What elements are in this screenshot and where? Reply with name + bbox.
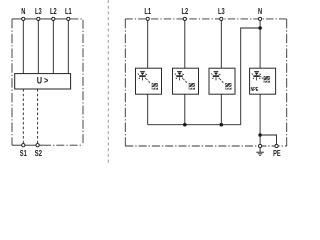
- left device enclosure bottom border solid part: [12, 144, 43, 146]
- junction N node: [258, 26, 262, 30]
- varistor arrester module L1: [136, 68, 162, 94]
- ground symbol: [256, 148, 264, 156]
- svg-text:L2: L2: [50, 7, 57, 16]
- wire L1 module to bus: [147, 94, 149, 125]
- terminal S2: [36, 144, 39, 147]
- wire L2 to arrester module: [184, 21, 186, 69]
- svg-text:U >: U >: [37, 74, 49, 85]
- svg-text:L3: L3: [35, 7, 42, 16]
- wire L2 module to bus: [184, 94, 186, 125]
- wire N to NPE spark gap: [259, 21, 261, 69]
- bus wire joining varistor outputs: [148, 124, 241, 126]
- svg-text:N: N: [258, 7, 262, 16]
- wire L1 to arrester module: [147, 21, 149, 69]
- junction bus L2: [183, 123, 187, 127]
- svg-text:N: N: [21, 7, 25, 16]
- svg-text:S1: S1: [20, 149, 27, 158]
- terminal L2 (left unit): [52, 17, 55, 20]
- svg-text:L3: L3: [218, 7, 225, 16]
- svg-text:L1: L1: [65, 7, 72, 16]
- NPE spark gap module: [250, 68, 276, 94]
- wire L3 to arrester module: [220, 21, 222, 69]
- svg-text:NPE: NPE: [251, 87, 259, 93]
- right device enclosure bottom border (dash-dot): [125, 145, 286, 147]
- wire NPE module to earth terminal: [259, 94, 261, 146]
- right device enclosure left border (dash-dot): [124, 19, 126, 146]
- terminal L1 (right unit): [146, 17, 149, 20]
- wire N branch to varistor bus: [241, 28, 260, 125]
- terminal N (left unit): [22, 17, 25, 20]
- wire L1 to U> box: [67, 21, 69, 74]
- right device enclosure top border (dash-dot): [125, 18, 286, 20]
- wire L3 module to bus: [220, 94, 222, 125]
- left device enclosure left border (dash-dot): [11, 19, 13, 145]
- wire N to U> box: [22, 21, 24, 74]
- junction PE node: [258, 133, 262, 137]
- terminal S1: [22, 144, 25, 147]
- svg-text:PE: PE: [273, 149, 281, 158]
- dashed signal wire S1: [22, 89, 24, 144]
- varistor arrester module L2: [173, 68, 199, 94]
- left device enclosure top-right corner + right border (dash-dot): [70, 19, 84, 145]
- terminal L3 (right unit): [220, 17, 223, 20]
- varistor arrester module L3: [209, 68, 235, 94]
- svg-text:L1: L1: [144, 7, 151, 16]
- left device enclosure bottom border dash-dot part: [43, 144, 83, 146]
- terminal L2 (right unit): [183, 17, 186, 20]
- wire L2 to U> box: [52, 21, 54, 74]
- terminal N (right unit): [259, 17, 262, 20]
- terminal PE: [275, 144, 278, 147]
- wire L3 to U> box: [37, 21, 39, 74]
- terminal L1 (left unit): [67, 17, 70, 20]
- svg-text:L2: L2: [181, 7, 188, 16]
- overvoltage monitoring module U>: [15, 74, 71, 89]
- terminal L3 (left unit): [37, 17, 40, 20]
- junction bus L3: [220, 123, 224, 127]
- right device enclosure right border (dash-dot): [286, 19, 288, 146]
- dashed signal wire S2: [37, 89, 39, 144]
- separator dashed line: [107, 0, 109, 164]
- wire PE branch: [260, 135, 276, 146]
- left device enclosure top border (solid across terminals): [12, 18, 70, 20]
- svg-text:S2: S2: [35, 149, 43, 158]
- terminal earth: [259, 144, 262, 147]
